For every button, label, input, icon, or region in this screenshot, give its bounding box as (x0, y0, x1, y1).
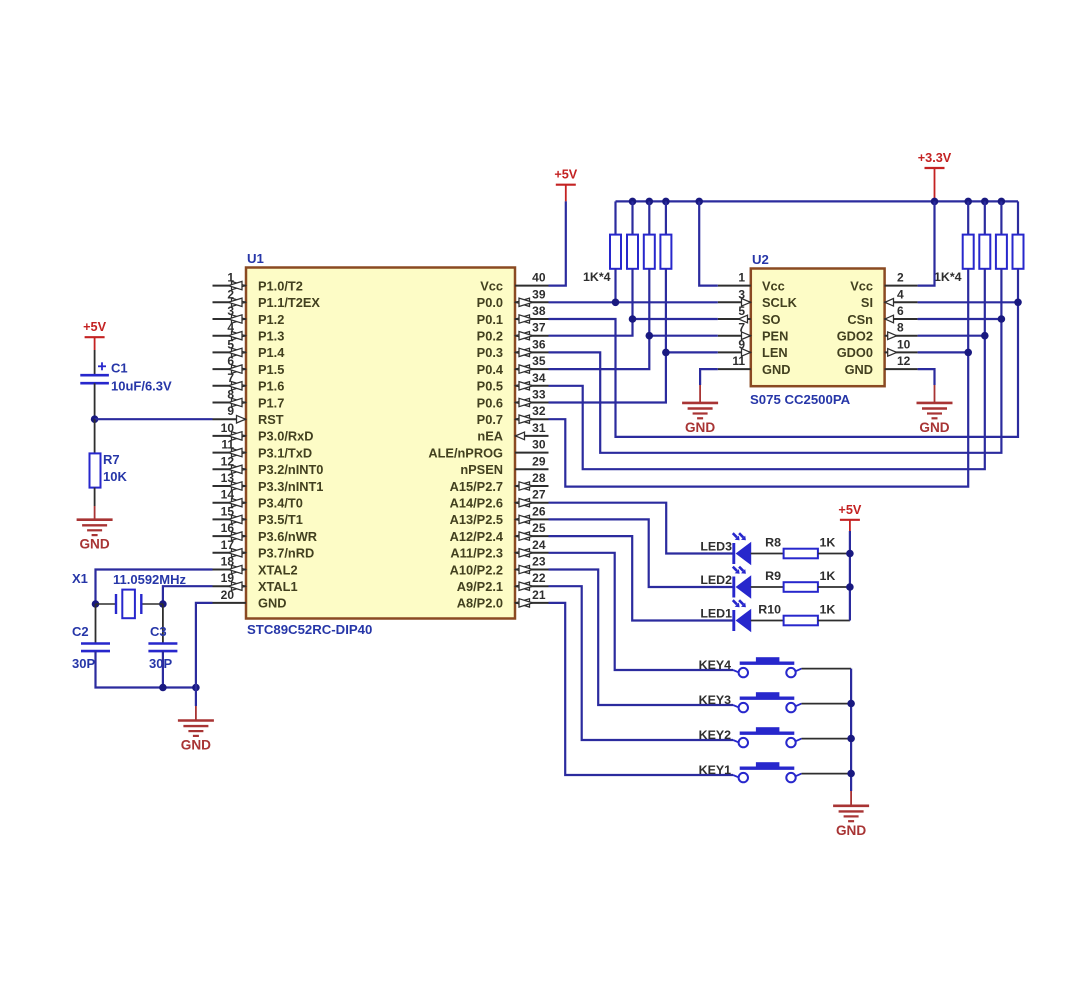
X1 label (72, 571, 88, 586)
svg-text:5: 5 (738, 304, 745, 318)
svg-text:+3.3V: +3.3V (918, 151, 952, 165)
wire bus to pull-up resistor right 2 (984, 201, 986, 234)
svg-text:C1: C1 (111, 361, 128, 376)
wire R10 to +5V column (818, 620, 850, 622)
wire LED2 to resistor (751, 586, 784, 588)
wire pull-up E to GDO0 net (967, 269, 969, 353)
svg-text:29: 29 (532, 454, 546, 468)
svg-text:26: 26 (532, 504, 546, 518)
wire U1 pin 23 to KEY3 (549, 570, 734, 706)
svg-text:8: 8 (897, 321, 904, 335)
U1 designator label (247, 251, 264, 266)
svg-text:35: 35 (532, 354, 546, 368)
node C3 rail junction (159, 684, 167, 692)
resistor pull-up 1K #2 (left group) (627, 235, 638, 269)
wire LED3 to resistor (751, 553, 784, 555)
node LEN pull-up junction (662, 349, 670, 357)
wire U2 pin2 Vcc to bus (918, 201, 935, 285)
svg-text:C2: C2 (72, 624, 89, 639)
svg-text:25: 25 (532, 521, 546, 535)
node SI pull-up junction (1014, 299, 1022, 307)
svg-text:STC89C52RC-DIP40: STC89C52RC-DIP40 (247, 622, 372, 637)
svg-text:37: 37 (532, 321, 546, 335)
wire R8 to +5V column (818, 553, 850, 555)
svg-text:A14/P2.6: A14/P2.6 (450, 496, 503, 511)
wire XTAL2 to C2 (95, 604, 97, 643)
wire +5V to C1 (94, 337, 96, 374)
svg-text:22: 22 (532, 571, 546, 585)
LED2 label (700, 573, 732, 587)
svg-text:LED2: LED2 (700, 573, 732, 587)
svg-text:11: 11 (221, 438, 234, 452)
svg-text:LED3: LED3 (700, 540, 732, 554)
svg-text:GND: GND (258, 596, 286, 611)
svg-text:XTAL1: XTAL1 (258, 579, 298, 594)
crystal X1 (96, 590, 163, 619)
svg-text:17: 17 (221, 538, 235, 552)
svg-text:+5V: +5V (83, 320, 106, 334)
svg-text:P3.2/nINT0: P3.2/nINT0 (258, 462, 323, 477)
svg-text:XTAL2: XTAL2 (258, 562, 298, 577)
+5V power symbol (top) (554, 168, 577, 185)
svg-text:P1.0/T2: P1.0/T2 (258, 278, 303, 293)
svg-text:R9: R9 (765, 569, 781, 583)
wire KEY3 to ground column (802, 703, 852, 705)
wire XTAL1 net (163, 586, 213, 604)
svg-text:Vcc: Vcc (850, 278, 873, 293)
wire RST net to U1 pin 9 (95, 418, 213, 420)
wire U2 pin12 GND (918, 369, 935, 403)
svg-text:20: 20 (221, 588, 235, 602)
wire U1 pin 21 to KEY1 (549, 603, 734, 775)
svg-text:10: 10 (221, 421, 235, 435)
svg-text:11.0592MHz: 11.0592MHz (113, 572, 186, 587)
wire pull-up 1 to SCLK net (614, 269, 616, 303)
LED3 label (700, 540, 732, 554)
svg-text:+5V: +5V (554, 168, 577, 182)
resistor pull-up 1K #1 (left group) (610, 235, 621, 269)
svg-text:A9/P2.1: A9/P2.1 (457, 579, 503, 594)
wire C3 to rail (162, 651, 164, 687)
node GDO2 pull-up junction (981, 332, 989, 340)
node KEY2 ground junction (847, 735, 855, 743)
wire KEY1 to ground column (802, 773, 852, 775)
svg-text:S075 CC2500PA: S075 CC2500PA (750, 392, 851, 407)
svg-text:3: 3 (738, 287, 745, 301)
svg-text:1K: 1K (820, 536, 836, 550)
wire node to R7 (94, 419, 96, 453)
C2 label (72, 624, 89, 639)
svg-text:nEA: nEA (477, 429, 503, 444)
svg-text:14: 14 (221, 488, 235, 502)
node bus junction B (629, 198, 637, 206)
node bus junction +3.3V (931, 198, 939, 206)
ground below U2 left (682, 403, 718, 435)
wire bus to pull-up resistor right 3 (1000, 201, 1002, 234)
RF module U2 CC2500PA (718, 269, 918, 387)
svg-text:1K*4: 1K*4 (934, 270, 962, 284)
svg-text:P0.5: P0.5 (477, 379, 503, 394)
ground below keys (833, 806, 869, 838)
diode LED2 (733, 567, 751, 598)
svg-text:6: 6 (227, 354, 234, 368)
svg-text:P3.1/TxD: P3.1/TxD (258, 445, 312, 460)
capacitor C3 (148, 644, 177, 652)
C3 label (150, 624, 167, 639)
svg-text:U2: U2 (752, 252, 769, 267)
ground below crystal (178, 721, 214, 753)
R8 label (765, 536, 781, 550)
wire net P0.3-CSn (549, 319, 1002, 453)
svg-text:1: 1 (227, 271, 234, 285)
svg-text:GND: GND (836, 823, 866, 838)
node bus junction D (662, 198, 670, 206)
resistor pull-up 1K #2 (right group) (979, 235, 990, 269)
+3.3V power symbol (918, 151, 952, 168)
svg-text:nPSEN: nPSEN (460, 462, 503, 477)
svg-text:12: 12 (897, 354, 911, 368)
svg-text:R8: R8 (765, 536, 781, 550)
wire R7 to ground (94, 488, 96, 520)
svg-text:4: 4 (227, 321, 234, 335)
diode LED1 (733, 600, 751, 631)
node bus junction C (646, 198, 654, 206)
wire bus to pull-up resistor 1 (614, 201, 616, 234)
resistor R8 1K (784, 549, 818, 559)
wire U2 pin11 GND (700, 369, 718, 403)
switch KEY1 (733, 762, 802, 782)
svg-text:28: 28 (532, 471, 546, 485)
svg-text:3: 3 (227, 304, 234, 318)
wire pull-up F to GDO2 net (984, 269, 986, 336)
KEY4 label (699, 658, 731, 672)
svg-text:23: 23 (532, 555, 546, 569)
C3 value label (149, 656, 172, 671)
svg-text:A13/P2.5: A13/P2.5 (450, 512, 503, 527)
wire pull-up 4 to LEN net (665, 269, 667, 353)
svg-text:13: 13 (221, 471, 235, 485)
wire +5V to Vcc pin 40 (549, 185, 566, 286)
svg-text:KEY3: KEY3 (699, 693, 731, 707)
svg-text:P1.6: P1.6 (258, 379, 284, 394)
wire C2 bottom rail (96, 651, 196, 687)
wire U1 pin 25 to LED1 (549, 536, 734, 620)
svg-text:6: 6 (897, 304, 904, 318)
svg-text:2: 2 (897, 271, 904, 285)
svg-text:C3: C3 (150, 624, 167, 639)
svg-text:P0.2: P0.2 (477, 329, 503, 344)
svg-text:R7: R7 (103, 452, 120, 467)
svg-text:LEN: LEN (762, 345, 788, 360)
svg-text:PEN: PEN (762, 329, 788, 344)
svg-text:U1: U1 (247, 251, 264, 266)
node GDO0 pull-up junction (964, 349, 972, 357)
wire net P0.1-SI (549, 302, 1019, 437)
svg-text:SO: SO (762, 312, 781, 327)
resistor pull-up 1K #3 (left group) (644, 235, 655, 269)
wire net P0.0-SCLK (549, 301, 718, 303)
svg-text:5: 5 (227, 337, 234, 351)
svg-text:P1.3: P1.3 (258, 329, 284, 344)
svg-text:A11/P2.3: A11/P2.3 (450, 546, 503, 561)
node KEY3 ground junction (847, 700, 855, 708)
wire +3.3V to bus (934, 168, 936, 201)
svg-text:10K: 10K (103, 469, 127, 484)
svg-text:39: 39 (532, 287, 546, 301)
svg-text:P3.4/T0: P3.4/T0 (258, 496, 303, 511)
wire net P0.2-SO (549, 319, 718, 336)
svg-text:P0.6: P0.6 (477, 395, 503, 410)
svg-text:KEY1: KEY1 (699, 763, 731, 777)
wire XTAL2 net (96, 570, 213, 605)
resistor pull-up 1K #4 (right group) (1013, 235, 1024, 269)
svg-text:GDO2: GDO2 (837, 329, 873, 344)
svg-text:A10/P2.2: A10/P2.2 (450, 562, 503, 577)
svg-text:19: 19 (221, 571, 235, 585)
wire U1 pin 27 to LED3 (549, 503, 734, 554)
diode LED3 (733, 533, 751, 564)
node CSn pull-up junction (998, 315, 1006, 323)
wire keys ground column (850, 670, 852, 806)
ground below R7 (77, 520, 113, 552)
svg-text:7: 7 (738, 321, 745, 335)
svg-text:27: 27 (532, 488, 546, 502)
svg-text:Vcc: Vcc (480, 278, 503, 293)
U1 part name label (247, 622, 372, 637)
C2 value label (72, 656, 95, 671)
wire C1 to RST node (94, 383, 96, 419)
switch KEY3 (733, 692, 802, 712)
svg-text:P0.0: P0.0 (477, 295, 503, 310)
wire LED1 to resistor (751, 620, 784, 622)
node KEY1 ground junction (847, 770, 855, 778)
R10 value 1K (820, 603, 836, 617)
R10 label (758, 603, 781, 617)
switch KEY4 (733, 657, 802, 677)
svg-text:16: 16 (221, 521, 235, 535)
svg-text:KEY4: KEY4 (699, 658, 731, 672)
wire pull-up H to SI net (1017, 269, 1019, 303)
node bus junction U2Vcc (695, 198, 703, 206)
switch KEY2 (733, 727, 802, 747)
wire bus to pull-up resistor 3 (648, 201, 650, 234)
svg-text:P1.1/T2EX: P1.1/T2EX (258, 295, 320, 310)
node SO pull-up junction (629, 315, 637, 323)
svg-text:ALE/nPROG: ALE/nPROG (428, 445, 503, 460)
wire U1 GND pin 20 net (196, 603, 213, 688)
svg-text:10uF/6.3V: 10uF/6.3V (111, 379, 172, 394)
node LED2 +5V junction (846, 583, 854, 591)
svg-text:P3.3/nINT1: P3.3/nINT1 (258, 479, 323, 494)
KEY2 label (699, 728, 731, 742)
svg-text:CSn: CSn (847, 312, 873, 327)
node LED3 +5V junction (846, 550, 854, 558)
svg-text:15: 15 (221, 504, 235, 518)
svg-text:RST: RST (258, 412, 284, 427)
wire bus to pull-up resistor right 4 (1017, 201, 1019, 234)
svg-text:GND: GND (762, 362, 790, 377)
svg-text:P3.5/T1: P3.5/T1 (258, 512, 303, 527)
wire bus to pull-up resistor right 1 (967, 201, 969, 234)
svg-text:P1.4: P1.4 (258, 345, 285, 360)
capacitor C2 (81, 644, 110, 652)
KEY1 label (699, 763, 731, 777)
svg-text:18: 18 (221, 555, 235, 569)
U2 part name label (750, 392, 851, 407)
wire KEY2 to ground column (802, 738, 852, 740)
svg-text:R10: R10 (758, 603, 781, 617)
wire pull-up 3 to PEN net (648, 269, 650, 336)
svg-text:2: 2 (227, 287, 234, 301)
svg-text:36: 36 (532, 337, 546, 351)
LED1 label (700, 607, 732, 621)
node bus junction G (998, 198, 1006, 206)
wire KEY4 to ground column (802, 669, 852, 670)
wire XTAL1 to C3 (162, 604, 164, 643)
svg-text:34: 34 (532, 371, 546, 385)
node XTAL1 junction (159, 600, 167, 608)
svg-text:GND: GND (919, 420, 949, 435)
svg-text:12: 12 (221, 454, 235, 468)
wire U1 pin 22 to KEY2 (549, 586, 734, 740)
svg-text:LED1: LED1 (700, 607, 732, 621)
U2 designator label (752, 252, 769, 267)
wire pull-up G to CSn net (1000, 269, 1002, 319)
svg-text:40: 40 (532, 271, 546, 285)
svg-text:7: 7 (227, 371, 234, 385)
wire +3.3V bus (616, 200, 1019, 202)
resistor pull-up 1K #4 (left group) (660, 235, 671, 269)
resistor pull-up 1K #1 (right group) (963, 235, 974, 269)
1K*4 label (left group) (583, 270, 611, 284)
node SCLK pull-up junction (612, 299, 620, 307)
R9 value 1K (820, 569, 836, 583)
svg-text:1K: 1K (820, 569, 836, 583)
svg-text:P1.2: P1.2 (258, 312, 284, 327)
wire net P0.5-GDO2 (549, 336, 985, 470)
svg-text:38: 38 (532, 304, 546, 318)
svg-text:33: 33 (532, 388, 546, 402)
resistor R9 1K (784, 582, 818, 592)
svg-text:P3.0/RxD: P3.0/RxD (258, 429, 313, 444)
svg-text:31: 31 (532, 421, 546, 435)
svg-text:X1: X1 (72, 571, 88, 586)
svg-text:SI: SI (861, 295, 873, 310)
svg-text:GDO0: GDO0 (837, 345, 873, 360)
svg-text:+5V: +5V (838, 503, 861, 517)
svg-text:30: 30 (532, 438, 546, 452)
svg-text:8: 8 (227, 388, 234, 402)
svg-text:24: 24 (532, 538, 546, 552)
svg-text:30P: 30P (149, 656, 172, 671)
capacitor C1 (80, 362, 109, 383)
svg-text:1K*4: 1K*4 (583, 270, 611, 284)
svg-text:GND: GND (685, 420, 715, 435)
IC U1 microcontroller STC89C52RC-DIP40 (213, 268, 549, 619)
R9 label (765, 569, 781, 583)
1K*4 label (right group) (934, 270, 962, 284)
svg-text:P0.1: P0.1 (477, 312, 503, 327)
svg-text:GND: GND (79, 537, 109, 552)
resistor R10 1K (784, 616, 818, 626)
svg-text:KEY2: KEY2 (699, 728, 731, 742)
R7 labels (103, 452, 127, 484)
+5V power symbol (LED) (838, 503, 861, 520)
wire bus to pull-up resistor 4 (665, 201, 667, 234)
wire R9 to +5V column (818, 586, 850, 588)
wire pull-up 2 to SO net (631, 269, 633, 319)
node GND rail junction (192, 684, 200, 692)
svg-text:GND: GND (845, 362, 873, 377)
svg-text:P1.7: P1.7 (258, 395, 284, 410)
wire net P0.6-LEN (549, 352, 718, 402)
svg-text:GND: GND (181, 738, 211, 753)
+5V power symbol (left) (83, 320, 106, 337)
svg-text:11: 11 (732, 354, 745, 368)
svg-text:30P: 30P (72, 656, 95, 671)
svg-text:4: 4 (897, 287, 904, 301)
C1 labels (111, 361, 172, 394)
svg-text:9: 9 (738, 337, 745, 351)
svg-text:P0.3: P0.3 (477, 345, 503, 360)
node XTAL2 junction (92, 600, 100, 608)
svg-text:A8/P2.0: A8/P2.0 (457, 596, 503, 611)
svg-text:P1.5: P1.5 (258, 362, 284, 377)
svg-text:A15/P2.7: A15/P2.7 (450, 479, 503, 494)
svg-text:21: 21 (532, 588, 546, 602)
svg-text:10: 10 (897, 337, 911, 351)
wire bus to pull-up resistor 2 (631, 201, 633, 234)
svg-text:1: 1 (738, 271, 745, 285)
svg-text:P0.7: P0.7 (477, 412, 503, 427)
svg-text:P0.4: P0.4 (477, 362, 504, 377)
ground below U2 right (917, 403, 953, 435)
svg-text:P3.6/nWR: P3.6/nWR (258, 529, 317, 544)
svg-text:Vcc: Vcc (762, 278, 785, 293)
svg-text:A12/P2.4: A12/P2.4 (450, 529, 504, 544)
svg-text:P3.7/nRD: P3.7/nRD (258, 546, 314, 561)
svg-text:32: 32 (532, 404, 546, 418)
wire U1 pin 24 to KEY4 (549, 553, 734, 670)
X1 frequency label (113, 572, 186, 587)
wire +5V LED column (849, 520, 851, 621)
wire net P0.4-PEN (549, 336, 718, 369)
resistor pull-up 1K #3 (right group) (996, 235, 1007, 269)
node RST junction (91, 415, 99, 423)
R8 value 1K (820, 536, 836, 550)
wire U2 pin1 Vcc to bus (699, 201, 718, 285)
wire U1 pin 26 to LED2 (549, 519, 734, 587)
svg-text:1K: 1K (820, 603, 836, 617)
node bus junction F (981, 198, 989, 206)
node PEN pull-up junction (646, 332, 654, 340)
svg-text:9: 9 (227, 404, 234, 418)
svg-text:SCLK: SCLK (762, 295, 798, 310)
resistor R7 (90, 453, 101, 487)
node bus junction E (964, 198, 972, 206)
KEY3 label (699, 693, 731, 707)
wire net P0.7-GDO0 (549, 352, 969, 486)
wire rail to ground (195, 688, 197, 721)
